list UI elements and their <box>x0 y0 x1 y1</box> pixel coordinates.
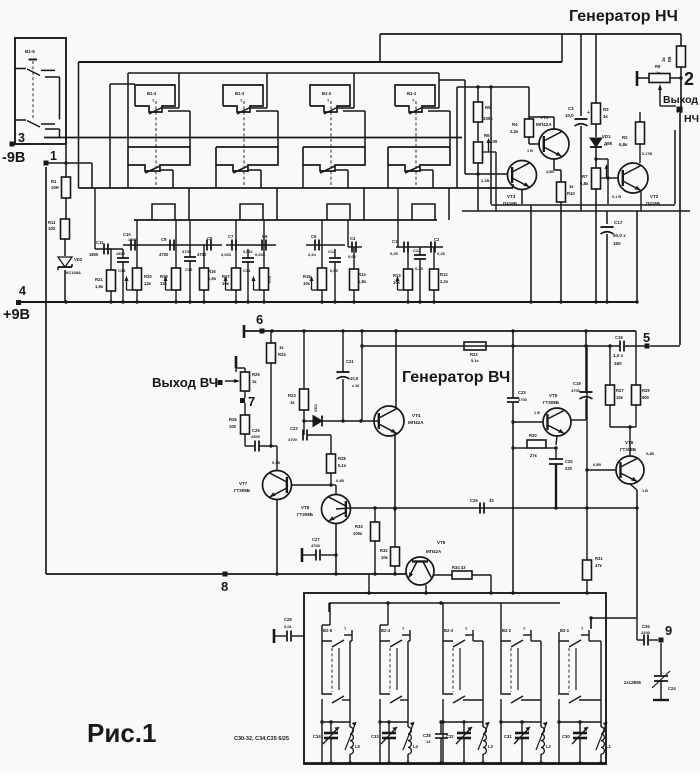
switch В1-2 section 2 <box>303 147 365 171</box>
svg-text:0,4В: 0,4В <box>646 452 654 456</box>
terminal Выход НЧ <box>677 107 683 113</box>
wire VT7 collector <box>275 500 278 576</box>
wire R11-VD2 <box>64 239 66 256</box>
svg-text:C25: C25 <box>252 428 260 433</box>
svg-text:R28: R28 <box>338 456 346 461</box>
svg-text:R4: R4 <box>512 122 518 127</box>
wire bus y508 <box>350 506 637 509</box>
switch В1-4 blade 1 <box>149 107 179 114</box>
svg-text:Выход ВЧ: Выход ВЧ <box>152 375 218 390</box>
resistor R29 <box>632 385 651 405</box>
wire L3 <box>481 722 484 765</box>
svg-text:100к: 100к <box>483 116 493 121</box>
terminal 9 <box>659 623 673 643</box>
transistor VT4 <box>374 406 424 436</box>
svg-text:R29: R29 <box>642 388 650 393</box>
svg-text:VT6: VT6 <box>625 440 634 445</box>
svg-text:В1-2: В1-2 <box>322 91 332 96</box>
label С30-32 values <box>234 736 289 742</box>
svg-text:Генератор НЧ: Генератор НЧ <box>569 8 678 25</box>
switch В2-3 link <box>452 648 454 692</box>
transistor VT1 <box>536 115 569 159</box>
svg-text:2,1В: 2,1В <box>481 178 490 183</box>
wire cap col C7 <box>235 220 237 302</box>
resistor R33 <box>353 522 380 541</box>
resistor R30 <box>527 433 546 458</box>
capacitor C16 <box>182 249 196 272</box>
wire С30 top link <box>559 721 601 723</box>
wire cap row segment 5 <box>348 220 362 247</box>
svg-text:В2-2: В2-2 <box>502 628 512 633</box>
resistor R7 <box>580 164 609 189</box>
wire rail y205 <box>491 204 675 206</box>
svg-text:R14: R14 <box>358 272 366 277</box>
svg-text:160: 160 <box>613 241 621 246</box>
capacitor C1 <box>390 239 408 256</box>
terminal 3 <box>10 131 31 147</box>
svg-text:VT9: VT9 <box>437 540 446 545</box>
wire VT5 base <box>513 421 543 423</box>
resistor R18 <box>303 268 327 290</box>
svg-text:1 В: 1 В <box>642 489 648 493</box>
switch В2-4 bottom contact <box>380 641 408 703</box>
wire R24 down <box>269 363 272 448</box>
wire C22 <box>299 421 331 435</box>
wire x587 column <box>585 346 588 560</box>
switch В2-1 label <box>560 627 584 633</box>
switch B1-5 box <box>15 38 66 144</box>
svg-text:1,0 х: 1,0 х <box>613 353 624 358</box>
switch В1-1 blade 1 <box>409 107 439 114</box>
svg-text:R23: R23 <box>288 393 296 398</box>
switch В1-3 section 2 <box>216 147 278 171</box>
resistor R27 <box>606 385 625 405</box>
svg-text:С34: С34 <box>313 734 321 739</box>
wire С32 top link <box>443 721 483 723</box>
svg-text:100к: 100к <box>353 531 363 536</box>
transistor VT9 <box>406 540 446 585</box>
svg-text:КС168А: КС168А <box>66 270 81 275</box>
svg-text:6,8к: 6,8к <box>619 142 628 147</box>
svg-text:0,25: 0,25 <box>415 266 424 271</box>
switch В1-4 section 1 <box>135 85 175 112</box>
wire R2-VT2 collector <box>640 144 652 163</box>
svg-text:C16: C16 <box>185 267 193 272</box>
switch В1-2 output wire <box>343 111 365 147</box>
switch В2-2 label <box>502 627 526 633</box>
title Генератор НЧ <box>569 8 678 25</box>
wire R4-VT1 base <box>527 137 540 153</box>
capacitor C35 <box>641 624 651 646</box>
svg-text:C5: C5 <box>311 234 317 239</box>
svg-text:+: + <box>587 110 590 116</box>
svg-text:2х12В95: 2х12В95 <box>624 680 642 685</box>
svg-text:4700: 4700 <box>311 543 321 548</box>
switch В2-4 tall bracket <box>397 635 410 722</box>
svg-text:10,0: 10,0 <box>350 376 359 381</box>
capacitor C18 <box>613 335 624 366</box>
svg-text:C27: C27 <box>312 537 320 542</box>
terminal 6 <box>256 312 265 334</box>
svg-text:Генератор ВЧ: Генератор ВЧ <box>402 369 510 386</box>
wire T7-R26 <box>244 403 246 415</box>
wire box around amp <box>489 85 675 204</box>
wire C35 <box>637 618 658 640</box>
svg-text:C10: C10 <box>123 232 131 237</box>
wire L2 <box>539 722 542 765</box>
svg-text:C26: C26 <box>470 498 478 503</box>
wire C21 col <box>342 331 344 421</box>
wire В2-1 down left <box>557 699 560 763</box>
svg-text:R27: R27 <box>616 388 624 393</box>
svg-text:10,0: 10,0 <box>565 113 574 118</box>
capacitor C9 <box>159 237 174 257</box>
switch В1-1 output wire <box>428 111 450 147</box>
wire В2-5 down left <box>320 699 323 763</box>
svg-text:R1: R1 <box>51 179 57 184</box>
switch В1-1 blade 2 <box>405 166 433 173</box>
wire С33 <box>387 720 390 764</box>
resistor R17 <box>222 268 241 290</box>
svg-text:13к: 13к <box>160 281 168 286</box>
wire R31-bus <box>585 580 588 595</box>
svg-text:C7: C7 <box>228 234 234 239</box>
capacitor C24 variable <box>624 671 676 691</box>
svg-text:ГТ308Б: ГТ308Б <box>543 400 560 405</box>
svg-text:C15: C15 <box>118 268 126 273</box>
switch В1-4 link <box>155 101 157 185</box>
svg-text:1,8к: 1,8к <box>358 279 367 284</box>
switch В1-2 section-2 output <box>303 165 348 188</box>
resistor R5 <box>474 102 494 122</box>
svg-text:R12: R12 <box>440 272 448 277</box>
potentiometer R25 <box>236 368 260 391</box>
svg-text:R7: R7 <box>582 174 588 179</box>
resistor R1 <box>51 177 71 198</box>
svg-text:4700: 4700 <box>288 437 298 442</box>
svg-text:2,2к: 2,2к <box>510 129 519 134</box>
svg-text:ГТ308Б: ГТ308Б <box>620 447 637 452</box>
wire VT1 emitter <box>529 117 554 129</box>
resistor R13 <box>393 269 413 290</box>
terminal 1 <box>44 149 58 166</box>
svg-text:VD3: VD3 <box>313 403 318 412</box>
wire R7-bus <box>595 189 597 302</box>
wire С33 top link <box>380 721 408 723</box>
svg-text:4700: 4700 <box>159 252 169 257</box>
switch В2-4 link <box>389 648 391 692</box>
svg-text:10к: 10к <box>303 281 311 286</box>
svg-text:VT5: VT5 <box>549 393 558 398</box>
wire cap col C2 <box>433 247 435 302</box>
svg-text:1 В: 1 В <box>527 149 533 153</box>
wire C24 ground <box>653 681 669 700</box>
wire branch y84 <box>110 84 135 188</box>
svg-text:10к: 10к <box>381 555 389 560</box>
inductor L5 <box>345 722 361 754</box>
wire C17 column <box>606 211 608 224</box>
wire C28 <box>439 720 442 764</box>
svg-text:6: 6 <box>256 312 263 327</box>
svg-text:0,5В: 0,5В <box>593 463 601 467</box>
inductor L2 <box>536 722 552 754</box>
switch В2-5 top contact <box>322 630 352 647</box>
label Рис.1 <box>87 718 156 748</box>
wire bus bottom y763 <box>304 762 606 764</box>
terminal Выход ВЧ <box>218 380 223 385</box>
svg-text:C2: C2 <box>434 237 440 242</box>
trimmer capacitor С33 <box>371 727 397 744</box>
svg-text:С31: С31 <box>504 734 512 739</box>
wire col C15 <box>122 249 124 302</box>
wire R1-R11 <box>65 198 67 219</box>
wire cap row segment 4 <box>306 244 345 246</box>
svg-text:C3: C3 <box>568 106 574 111</box>
svg-text:C17: C17 <box>614 220 623 225</box>
resistor R31 <box>583 556 604 580</box>
svg-text:В1-1: В1-1 <box>407 91 417 96</box>
wire feedback y80 <box>439 80 478 174</box>
svg-text:R16: R16 <box>208 269 216 274</box>
switch В2-5 input <box>322 603 330 632</box>
wire L4 <box>406 722 409 765</box>
wire VT4 base <box>373 420 376 422</box>
wire R3-VD1 <box>595 124 597 137</box>
switch В2-3 input <box>442 603 444 632</box>
wire C19 column <box>585 331 587 391</box>
wire С31 top link <box>501 721 541 723</box>
switch В1-4 blade 2 <box>145 166 173 173</box>
svg-text:100: 100 <box>229 424 237 429</box>
wire bus y62 <box>79 34 563 188</box>
svg-text:R32: R32 <box>380 548 388 553</box>
wire cap row segment 3 <box>226 244 276 246</box>
transistor VT3 <box>503 161 537 207</box>
switch В2-5 bottom contact <box>322 641 350 703</box>
switch В1-3 loop wire <box>179 73 267 108</box>
svg-text:ГТ308Б: ГТ308Б <box>297 512 314 517</box>
svg-text:5: 5 <box>643 330 650 345</box>
transistor VT5 <box>534 393 571 436</box>
svg-text:С30-32, С34,С35 6/25: С30-32, С34,С35 6/25 <box>234 736 289 742</box>
wire top rail y34 <box>380 34 681 62</box>
switch В1-1 stair wire <box>412 188 449 220</box>
svg-text:R24: R24 <box>278 352 286 357</box>
svg-text:10Н: 10Н <box>51 185 59 190</box>
wire VT6 emitter <box>630 484 648 618</box>
capacitor C12 <box>413 248 426 271</box>
wire C19-VT5 <box>571 399 586 420</box>
svg-text:1800: 1800 <box>128 238 136 242</box>
switch В2-4 top contact <box>380 630 410 647</box>
wire pot right <box>670 77 681 79</box>
wire cap row segment 1 <box>95 188 123 249</box>
wire VT4 emitter <box>393 433 396 511</box>
switch В1-3 section 1 <box>223 85 263 112</box>
svg-text:R10: R10 <box>567 191 575 196</box>
svg-text:4: 4 <box>19 284 26 298</box>
switch В1-4 loop wire <box>128 73 179 147</box>
wire VT3 collector <box>521 190 523 204</box>
switch В1-2 loop wire <box>267 73 354 108</box>
wire from terminal 1 <box>46 161 92 188</box>
capacitor C6 <box>255 234 268 257</box>
wire feedback y87 <box>457 85 529 188</box>
trimmer capacitor С32 <box>446 727 472 744</box>
wire pot left bar <box>637 71 649 86</box>
capacitor C27 <box>311 537 321 561</box>
switch В1-3 section-2 output <box>216 165 261 188</box>
svg-text:L1: L1 <box>606 744 612 749</box>
wire С30 <box>578 720 581 764</box>
svg-text:1к: 1к <box>656 70 660 75</box>
svg-text:C4: C4 <box>350 236 356 241</box>
wire R8 bottom <box>679 67 682 80</box>
switch B1-5 contact a <box>14 69 60 120</box>
wire C29-box <box>292 635 304 637</box>
svg-text:900: 900 <box>642 395 650 400</box>
switch В2-3 bottom contact <box>443 641 483 703</box>
switch В1-3 output wire <box>256 111 278 147</box>
svg-text:4300: 4300 <box>251 434 261 439</box>
wire cap col C4 <box>353 247 355 302</box>
svg-text:В2-1: В2-1 <box>560 628 570 633</box>
svg-text:ГТ308Б: ГТ308Б <box>234 488 251 493</box>
wire wiper to R25 <box>225 379 240 383</box>
wire bus y137 <box>44 137 462 139</box>
wire C25-VT7 <box>260 446 280 465</box>
capacitor C29 <box>274 617 293 643</box>
wire C27 <box>302 548 336 562</box>
svg-text:0,1 В: 0,1 В <box>612 195 621 199</box>
terminal 7 <box>240 394 255 409</box>
capacitor C26 <box>470 498 494 514</box>
switch В2-1 input <box>559 618 591 632</box>
svg-text:C8: C8 <box>207 236 213 241</box>
svg-text:47к: 47к <box>595 563 603 568</box>
switch В1-3 blade 2 <box>233 166 261 173</box>
svg-text:4700: 4700 <box>571 388 581 393</box>
svg-text:6,8к: 6,8к <box>580 181 589 186</box>
switch В2-1 tall bracket <box>576 635 601 722</box>
resistor R6 <box>474 133 498 211</box>
transistor VT8 <box>297 495 351 524</box>
capacitor C22 <box>288 426 307 442</box>
svg-text:33: 33 <box>489 498 494 503</box>
switch В2-1 top contact <box>559 630 589 647</box>
wire В2-2 down left <box>499 699 502 763</box>
wire col 531 <box>530 205 532 302</box>
svg-text:C18: C18 <box>615 335 623 340</box>
wire T5 to right edge <box>650 345 680 347</box>
svg-text:R33: R33 <box>355 524 363 529</box>
wire R27 top <box>609 346 611 385</box>
wire col C14 <box>247 249 249 302</box>
wire R26-C25 <box>245 434 254 446</box>
svg-text:НЧ: НЧ <box>684 113 699 125</box>
switch В2-2 link <box>510 648 512 692</box>
capacitor C13 <box>328 249 341 273</box>
title Генератор ВЧ <box>402 369 510 386</box>
svg-text:R2: R2 <box>622 135 628 140</box>
wire R23 col <box>302 331 305 423</box>
svg-text:C20: C20 <box>565 459 573 464</box>
svg-text:R19: R19 <box>160 274 168 279</box>
svg-text:C11: C11 <box>96 240 104 245</box>
wire VD2-bus <box>65 144 66 302</box>
svg-text:2200: 2200 <box>641 630 651 635</box>
switch В1-4 output wire <box>168 111 190 147</box>
svg-text:1,5к: 1,5к <box>208 276 217 281</box>
capacitor C3 <box>565 106 590 126</box>
svg-text:С28: С28 <box>423 733 431 738</box>
switch В1-3 blade 1 <box>237 107 267 114</box>
wire VT4 collector <box>394 329 397 409</box>
svg-text:МП42А: МП42А <box>536 122 552 127</box>
svg-text:В2-4: В2-4 <box>381 628 391 633</box>
svg-text:100: 100 <box>490 139 498 144</box>
switch В1-4 stair wire <box>152 188 189 220</box>
wire cap col C5 <box>321 220 323 302</box>
wire VT7 base wire <box>291 473 344 494</box>
resistor R26 <box>229 415 250 434</box>
svg-text:50,0 х: 50,0 х <box>613 233 626 238</box>
resistor R24 <box>267 331 287 363</box>
svg-text:13: 13 <box>426 739 431 744</box>
svg-text:R9: R9 <box>655 64 661 69</box>
resistor R21 <box>95 270 116 291</box>
svg-text:R11: R11 <box>48 220 56 225</box>
capacitor C17 <box>601 220 627 246</box>
resistor R11 <box>48 219 70 239</box>
svg-text:4,5В: 4,5В <box>546 170 554 174</box>
wire R6-VT3 <box>476 163 508 211</box>
svg-text:C29: C29 <box>284 617 292 622</box>
switch B1-5 link <box>32 61 34 119</box>
wire R9 wiper <box>658 84 676 106</box>
wire C3-rail <box>580 126 582 211</box>
switch В1-4 section-2 output <box>128 165 173 188</box>
svg-text:-9В: -9В <box>2 150 25 166</box>
resistor R8 <box>661 34 686 67</box>
svg-text:0,05: 0,05 <box>330 268 339 273</box>
trimmer capacitor С34 <box>313 727 339 744</box>
wire L5 <box>348 722 351 765</box>
svg-text:R8: R8 <box>667 56 672 62</box>
wire right edge vertical <box>680 78 681 345</box>
capacitor C15 <box>116 251 129 273</box>
switch В1-2 blade 1 <box>324 107 354 114</box>
wire cap row segment 2 <box>123 244 222 246</box>
wire cap col C11 <box>104 245 111 302</box>
svg-text:C14: C14 <box>243 268 251 273</box>
wire R27-VT6 <box>610 405 636 456</box>
wire bus 8 y574 <box>46 573 406 575</box>
switch В1-1 section-2 output <box>388 165 433 188</box>
switch В1-2 blade 2 <box>320 166 348 173</box>
svg-text:Д9К: Д9К <box>604 141 613 146</box>
wire cap row segment 6 <box>396 188 443 247</box>
switch В2-2 tall bracket <box>518 635 541 722</box>
wire left tall vertical <box>45 167 47 574</box>
svg-text:В2-3: В2-3 <box>444 628 454 633</box>
svg-text:1 В: 1 В <box>534 411 540 415</box>
transistor VT7 <box>234 471 292 500</box>
wire VT5 emitter <box>554 436 557 450</box>
svg-text:R6: R6 <box>484 133 490 138</box>
switch В1-4 section 2 <box>128 147 190 171</box>
resistor R22 <box>464 342 486 363</box>
